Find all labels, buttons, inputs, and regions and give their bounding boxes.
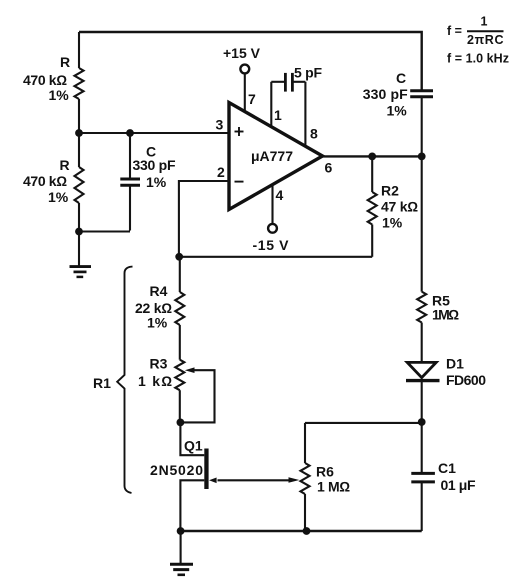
transistor Q1 2N5020 bbox=[150, 438, 217, 490]
svg-text:C: C bbox=[396, 70, 406, 86]
svg-text:R4: R4 bbox=[150, 283, 168, 299]
node left ground junction bbox=[75, 228, 83, 236]
svg-text:R: R bbox=[60, 54, 70, 70]
svg-text:1 kΩ: 1 kΩ bbox=[138, 373, 172, 389]
svg-text:470 kΩ: 470 kΩ bbox=[23, 72, 67, 88]
wire to pin 3 bbox=[79, 132, 229, 134]
wire R4 to R3 bbox=[179, 325, 181, 360]
node noninverting input bbox=[75, 129, 83, 137]
svg-text:6: 6 bbox=[325, 160, 333, 176]
wire right bus upper bbox=[421, 97, 423, 292]
wire feedback horizontal bbox=[179, 256, 372, 258]
wire left vertical upper bbox=[78, 32, 80, 68]
wire bottom rail bbox=[180, 530, 421, 532]
wire D1 to C1 bbox=[421, 381, 423, 473]
wire left vertical middle bbox=[78, 99, 80, 167]
svg-text:+15 V: +15 V bbox=[223, 45, 261, 61]
wire output pin 6 bbox=[323, 155, 422, 157]
wire drain lead bbox=[180, 422, 204, 455]
svg-text:μA777: μA777 bbox=[251, 148, 293, 164]
resistor R5 1M bbox=[417, 292, 459, 323]
wire pin 4 bbox=[271, 185, 273, 224]
resistor R 470k top bbox=[23, 54, 84, 103]
svg-text:3: 3 bbox=[216, 117, 224, 133]
svg-text:330 pF: 330 pF bbox=[133, 157, 176, 173]
svg-text:f = 1.0 kHz: f = 1.0 kHz bbox=[447, 52, 509, 66]
svg-text:1MΩ: 1MΩ bbox=[432, 306, 459, 322]
svg-text:7: 7 bbox=[248, 91, 256, 107]
svg-text:R1: R1 bbox=[93, 375, 111, 391]
svg-text:2πRC: 2πRC bbox=[467, 33, 504, 47]
svg-text:1: 1 bbox=[274, 107, 282, 123]
svg-text:-15 V: -15 V bbox=[253, 237, 290, 253]
ground left bbox=[70, 267, 92, 277]
ground bottom bbox=[170, 531, 193, 575]
svg-text:R3: R3 bbox=[150, 355, 168, 371]
svg-text:1%: 1% bbox=[147, 315, 168, 331]
svg-text:5 pF: 5 pF bbox=[294, 65, 322, 81]
resistor R4 22k bbox=[135, 283, 184, 331]
potentiometer R3 1k bbox=[138, 355, 215, 422]
resistor R2 47k bbox=[368, 156, 419, 256]
svg-text:f =: f = bbox=[447, 24, 462, 38]
node inverting feedback bbox=[175, 253, 183, 261]
wire pin 7 bbox=[244, 74, 246, 113]
svg-text:1%: 1% bbox=[387, 103, 408, 119]
node R3 wiper junction bbox=[177, 419, 185, 427]
svg-text:470 kΩ: 470 kΩ bbox=[23, 173, 67, 189]
wire R6 top to diode node bbox=[305, 422, 422, 424]
svg-text:Q1: Q1 bbox=[184, 438, 203, 454]
potentiometer R6 1M bbox=[289, 423, 351, 531]
wire R5 to D1 bbox=[421, 323, 423, 363]
svg-text:1%: 1% bbox=[382, 215, 403, 231]
node output right bus bbox=[418, 153, 426, 161]
node R6 bottom bbox=[303, 527, 311, 535]
node R2 top bbox=[368, 153, 376, 161]
svg-text:R: R bbox=[60, 157, 70, 173]
wire gate to R6 wiper bbox=[218, 479, 291, 481]
svg-text:2N5020: 2N5020 bbox=[150, 462, 203, 478]
svg-text:8: 8 bbox=[310, 126, 318, 142]
svg-text:1%: 1% bbox=[146, 174, 167, 190]
svg-text:R6: R6 bbox=[316, 463, 334, 479]
node source ground bbox=[177, 527, 185, 535]
brace R1 bbox=[93, 267, 133, 493]
power -15 V terminal bbox=[253, 224, 290, 253]
wire pin 2 bbox=[179, 181, 229, 257]
svg-text:1%: 1% bbox=[48, 189, 69, 205]
node C branch top bbox=[126, 129, 134, 137]
resistor R 470k lower bbox=[23, 157, 84, 205]
svg-text:1 MΩ: 1 MΩ bbox=[317, 479, 350, 495]
svg-text:330 pF: 330 pF bbox=[363, 86, 408, 102]
capacitor C 330 pF right bbox=[363, 70, 433, 119]
power +15 V terminal bbox=[223, 45, 261, 74]
svg-text:47 kΩ: 47 kΩ bbox=[381, 199, 418, 215]
svg-text:01 μF: 01 μF bbox=[441, 477, 476, 493]
op-amp U1 uA777 bbox=[229, 103, 323, 210]
wire source lead bbox=[180, 480, 204, 531]
svg-text:R2: R2 bbox=[381, 183, 399, 199]
svg-text:4: 4 bbox=[276, 187, 284, 203]
wire to R4 bbox=[179, 257, 181, 292]
svg-text:1%: 1% bbox=[49, 87, 70, 103]
formula f = 1 / 2 pi RC bbox=[447, 15, 504, 48]
capacitor 5 pF bbox=[271, 65, 322, 149]
diode D1 FD600 bbox=[406, 356, 486, 388]
node diode output bbox=[418, 418, 426, 426]
wire top rail bbox=[79, 32, 422, 91]
svg-text:2: 2 bbox=[217, 164, 225, 180]
wire left vertical lower bbox=[78, 203, 80, 266]
svg-text:FD600: FD600 bbox=[446, 372, 486, 388]
wire C bottom connection bbox=[79, 230, 130, 232]
svg-text:D1: D1 bbox=[446, 356, 464, 372]
svg-text:1: 1 bbox=[481, 15, 488, 29]
svg-text:C1: C1 bbox=[438, 460, 456, 476]
capacitor C 330 pF left bbox=[120, 133, 176, 231]
capacitor C1 01 uF bbox=[411, 460, 476, 531]
